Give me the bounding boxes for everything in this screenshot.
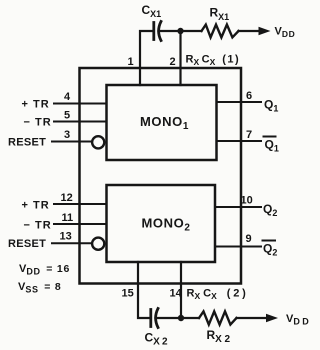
wire resistor2 to VDD arrow <box>237 317 269 319</box>
wire pin13 (RESET2) <box>52 242 92 244</box>
wire pin15 vertical + bend <box>138 262 149 318</box>
svg-text:10: 10 <box>241 195 253 207</box>
wire pin11 (-TR2) <box>54 223 107 225</box>
power VDD arrow (bottom) <box>266 314 278 322</box>
wire pin5 (-TR1) <box>54 121 107 123</box>
resistor RX2 <box>199 311 237 324</box>
wire cap2 to node <box>156 317 182 319</box>
svg-text:6: 6 <box>246 90 252 102</box>
svg-text:RXCX(2): RXCX(2) <box>187 288 249 302</box>
wire pin1 vertical <box>140 31 153 85</box>
mono U2 (MONO2) box <box>107 185 216 262</box>
svg-text:4: 4 <box>64 91 71 103</box>
inverter bubble (reset 1) <box>92 136 104 148</box>
wire pin10 (Q2) <box>215 206 261 208</box>
wire pin7 (Q1bar) <box>217 140 262 142</box>
svg-text:1: 1 <box>128 56 134 68</box>
svg-text:RX1: RX1 <box>210 6 230 23</box>
svg-text:CX2: CX2 <box>145 331 170 348</box>
overbar Q2 <box>263 240 276 242</box>
inverter bubble (reset 2) <box>92 238 104 250</box>
svg-text:RESET: RESET <box>8 137 46 149</box>
svg-text:CX1: CX1 <box>142 3 162 19</box>
svg-text:13: 13 <box>60 231 72 243</box>
overbar Q1 <box>264 136 276 138</box>
svg-text:− TR: − TR <box>24 220 52 232</box>
svg-text:Q1: Q1 <box>264 98 278 114</box>
node junction (top) <box>177 28 183 34</box>
svg-text:Q2: Q2 <box>263 202 277 218</box>
svg-text:− TR: − TR <box>24 117 52 129</box>
svg-text:Q2: Q2 <box>263 242 277 258</box>
wire pin14 vertical <box>180 262 182 318</box>
svg-text:7: 7 <box>246 129 252 141</box>
svg-text:Q1: Q1 <box>265 138 279 154</box>
svg-text:+ TR: + TR <box>22 200 50 212</box>
svg-text:RESET: RESET <box>8 238 46 250</box>
svg-text:5: 5 <box>64 110 70 122</box>
node junction (bottom) <box>178 315 184 321</box>
svg-text:VDD: VDD <box>275 26 296 40</box>
capacitor CX2 left plate <box>149 310 152 327</box>
svg-text:11: 11 <box>62 212 74 224</box>
capacitor CX1 left plate <box>152 23 155 40</box>
capacitor CX1 curved plate <box>159 22 161 41</box>
svg-text:RX2: RX2 <box>207 328 233 345</box>
svg-text:RXCX(1): RXCX(1) <box>186 54 241 68</box>
wire pin6 (Q1) <box>217 101 262 103</box>
wire node to resistor <box>181 30 202 32</box>
svg-text:2: 2 <box>170 56 176 68</box>
power VDD arrow (top) <box>259 27 271 35</box>
svg-text:+ TR: + TR <box>22 99 50 111</box>
svg-text:14: 14 <box>170 288 183 300</box>
wire cap to node <box>159 30 181 32</box>
wire node to resistor 2 <box>181 317 199 319</box>
svg-text:15: 15 <box>122 288 134 300</box>
capacitor CX2 curved plate <box>156 309 158 328</box>
wire pin3 (RESET1) <box>52 141 92 143</box>
svg-text:VDD: VDD <box>286 313 311 327</box>
wire pin9 (Q2bar) <box>215 246 261 248</box>
wire pin2 vertical <box>179 31 181 85</box>
wire pin4 (+TR1) <box>54 103 107 105</box>
wire pin12 (+TR2) <box>54 203 107 205</box>
svg-text:VSS = 8: VSS = 8 <box>18 281 62 295</box>
svg-text:3: 3 <box>64 129 70 141</box>
package outline <box>80 68 242 284</box>
svg-text:12: 12 <box>61 192 73 204</box>
resistor RX1 <box>202 25 239 38</box>
wire resistor to VDD arrow <box>239 30 262 32</box>
svg-text:VDD = 16: VDD = 16 <box>19 263 70 277</box>
svg-text:9: 9 <box>246 233 252 245</box>
mono U1 (MONO1) box <box>107 85 217 160</box>
